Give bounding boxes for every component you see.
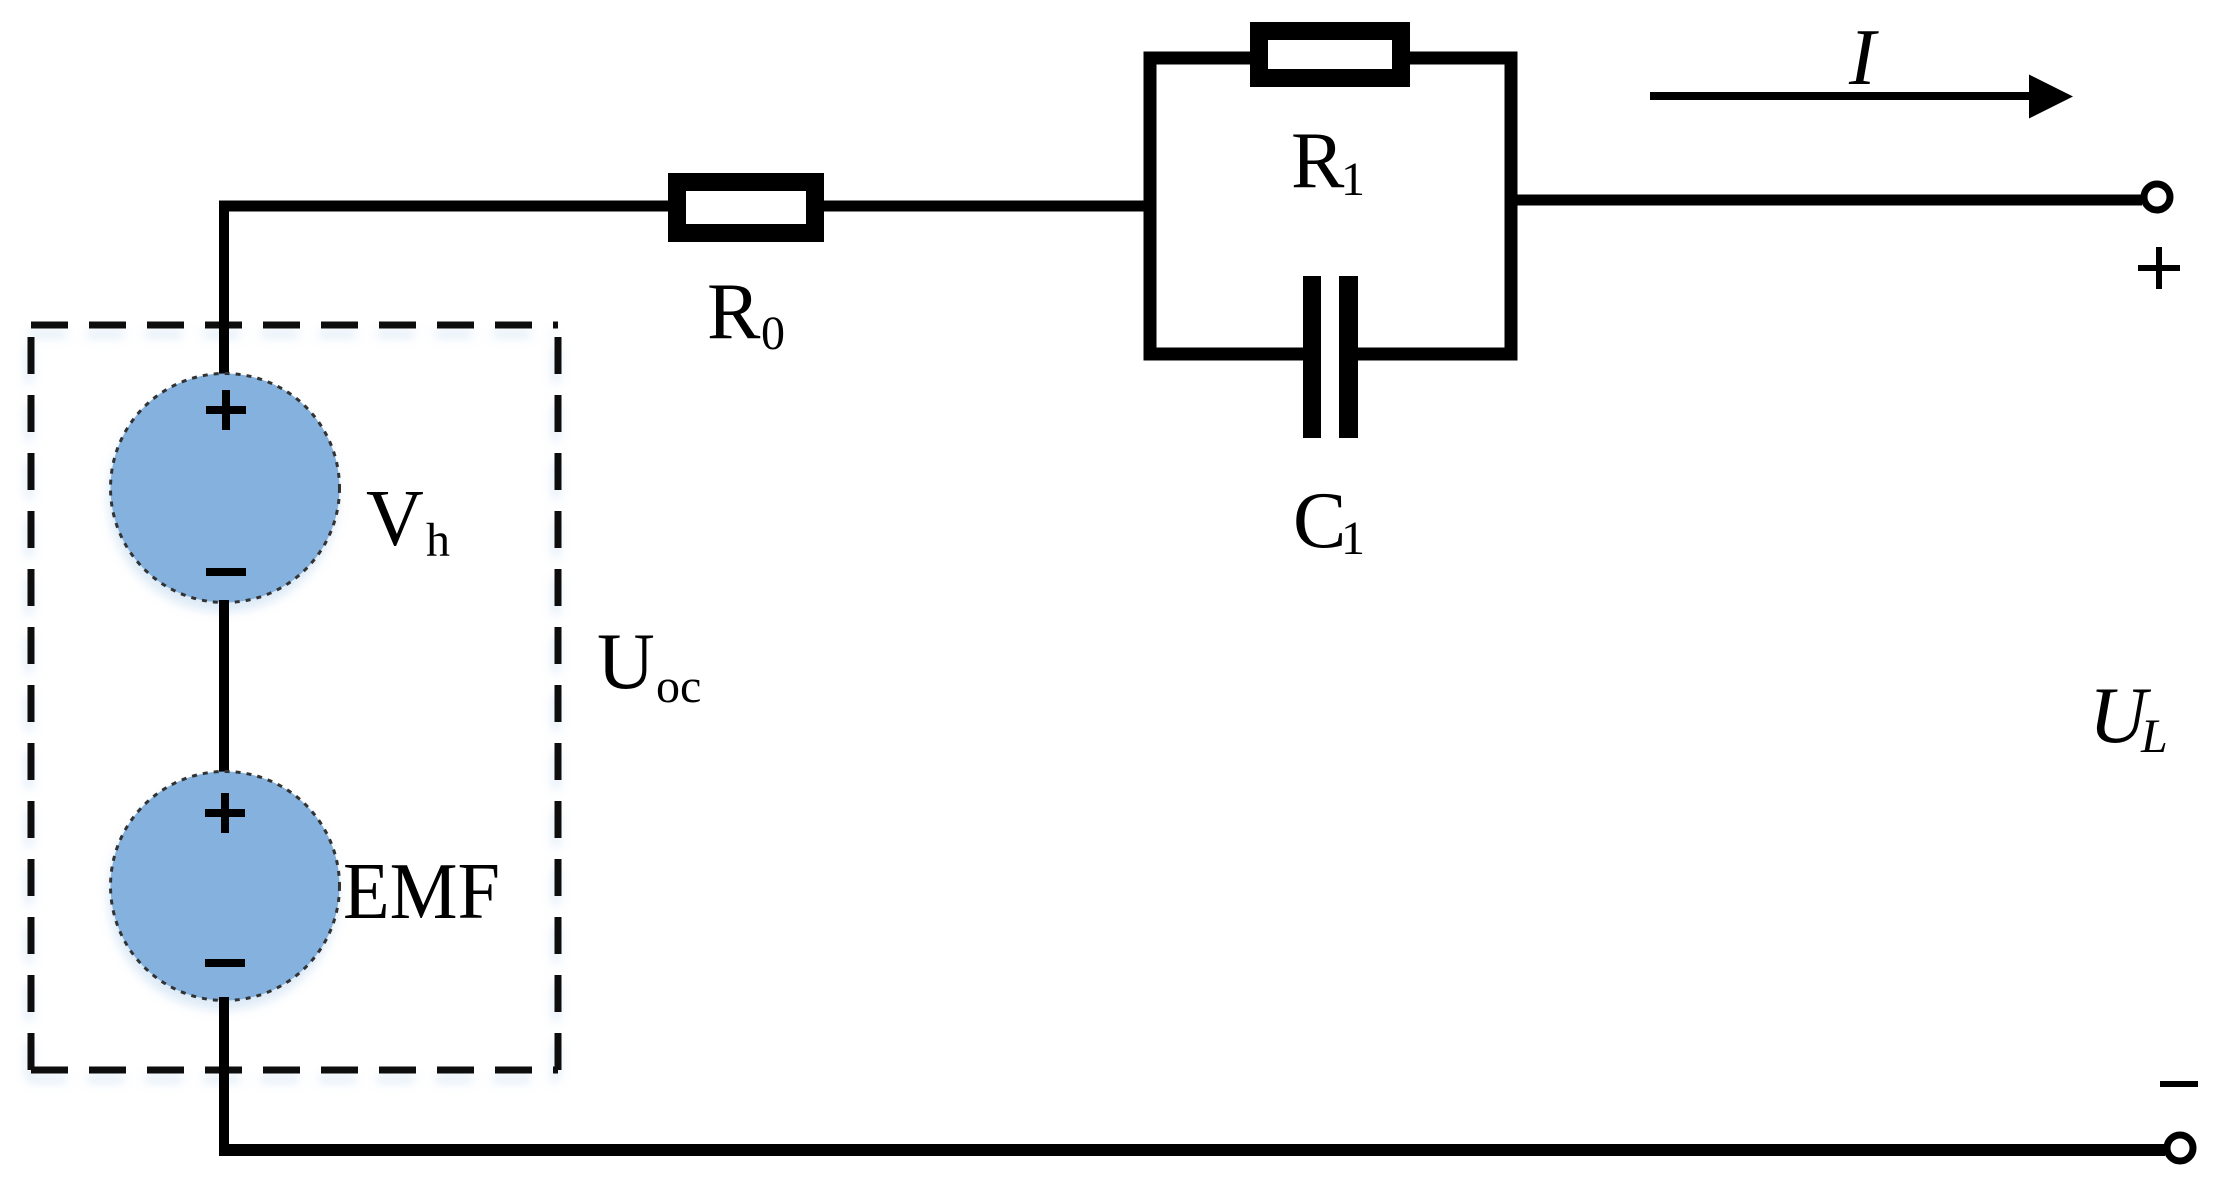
svg-text:U: U xyxy=(597,618,655,706)
capacitor C1 right plate xyxy=(1339,276,1358,438)
wire: R0 to RC box xyxy=(815,201,1155,212)
svg-text:EMF: EMF xyxy=(343,848,500,936)
capacitor C1 gap eraser xyxy=(1321,340,1339,365)
voltage source Vh xyxy=(111,374,340,603)
svg-text:R: R xyxy=(1291,117,1345,205)
plus sign in EMF xyxy=(205,793,245,833)
negative terminal node xyxy=(2167,1135,2193,1161)
minus sign at terminal xyxy=(2160,1081,2198,1087)
current arrow head xyxy=(2029,75,2073,119)
resistor R0 xyxy=(677,182,815,233)
svg-text:C: C xyxy=(1293,477,1346,565)
plus sign in Vh xyxy=(206,390,246,430)
svg-text:h: h xyxy=(426,514,450,567)
wire: top-left vertical from junction to Vh xyxy=(219,201,229,374)
RC box bottom edge right segment xyxy=(1348,348,1518,361)
svg-text:R: R xyxy=(707,268,761,356)
positive terminal node xyxy=(2144,184,2170,210)
svg-text:0: 0 xyxy=(761,307,785,360)
RC box left edge xyxy=(1144,52,1157,361)
current arrow shaft xyxy=(1650,92,2030,100)
svg-text:oc: oc xyxy=(656,660,701,713)
RC box right edge xyxy=(1505,52,1518,361)
svg-text:L: L xyxy=(2140,710,2168,763)
RC box top edge xyxy=(1144,52,1518,65)
wire: EMF down to bottom rail xyxy=(219,997,229,1156)
svg-text:1: 1 xyxy=(1341,512,1365,565)
wire: RC box to positive terminal xyxy=(1517,195,2142,206)
plus sign at terminal xyxy=(2138,247,2180,289)
minus sign in EMF xyxy=(205,959,245,967)
svg-text:I: I xyxy=(1848,14,1879,102)
battery pack dashed outline (Uoc box) xyxy=(31,325,558,1070)
voltage source EMF xyxy=(111,772,340,1001)
capacitor C1 left plate xyxy=(1303,276,1321,438)
resistor R1 xyxy=(1259,31,1401,78)
minus sign in Vh xyxy=(206,568,246,576)
svg-text:1: 1 xyxy=(1341,153,1365,206)
wire: top horizontal from junction to R0 xyxy=(219,201,677,212)
wire between Vh and EMF xyxy=(219,600,229,775)
RC box bottom edge left segment xyxy=(1144,348,1313,361)
wire: bottom rail to negative terminal xyxy=(219,1144,2165,1156)
svg-text:V: V xyxy=(366,475,424,563)
